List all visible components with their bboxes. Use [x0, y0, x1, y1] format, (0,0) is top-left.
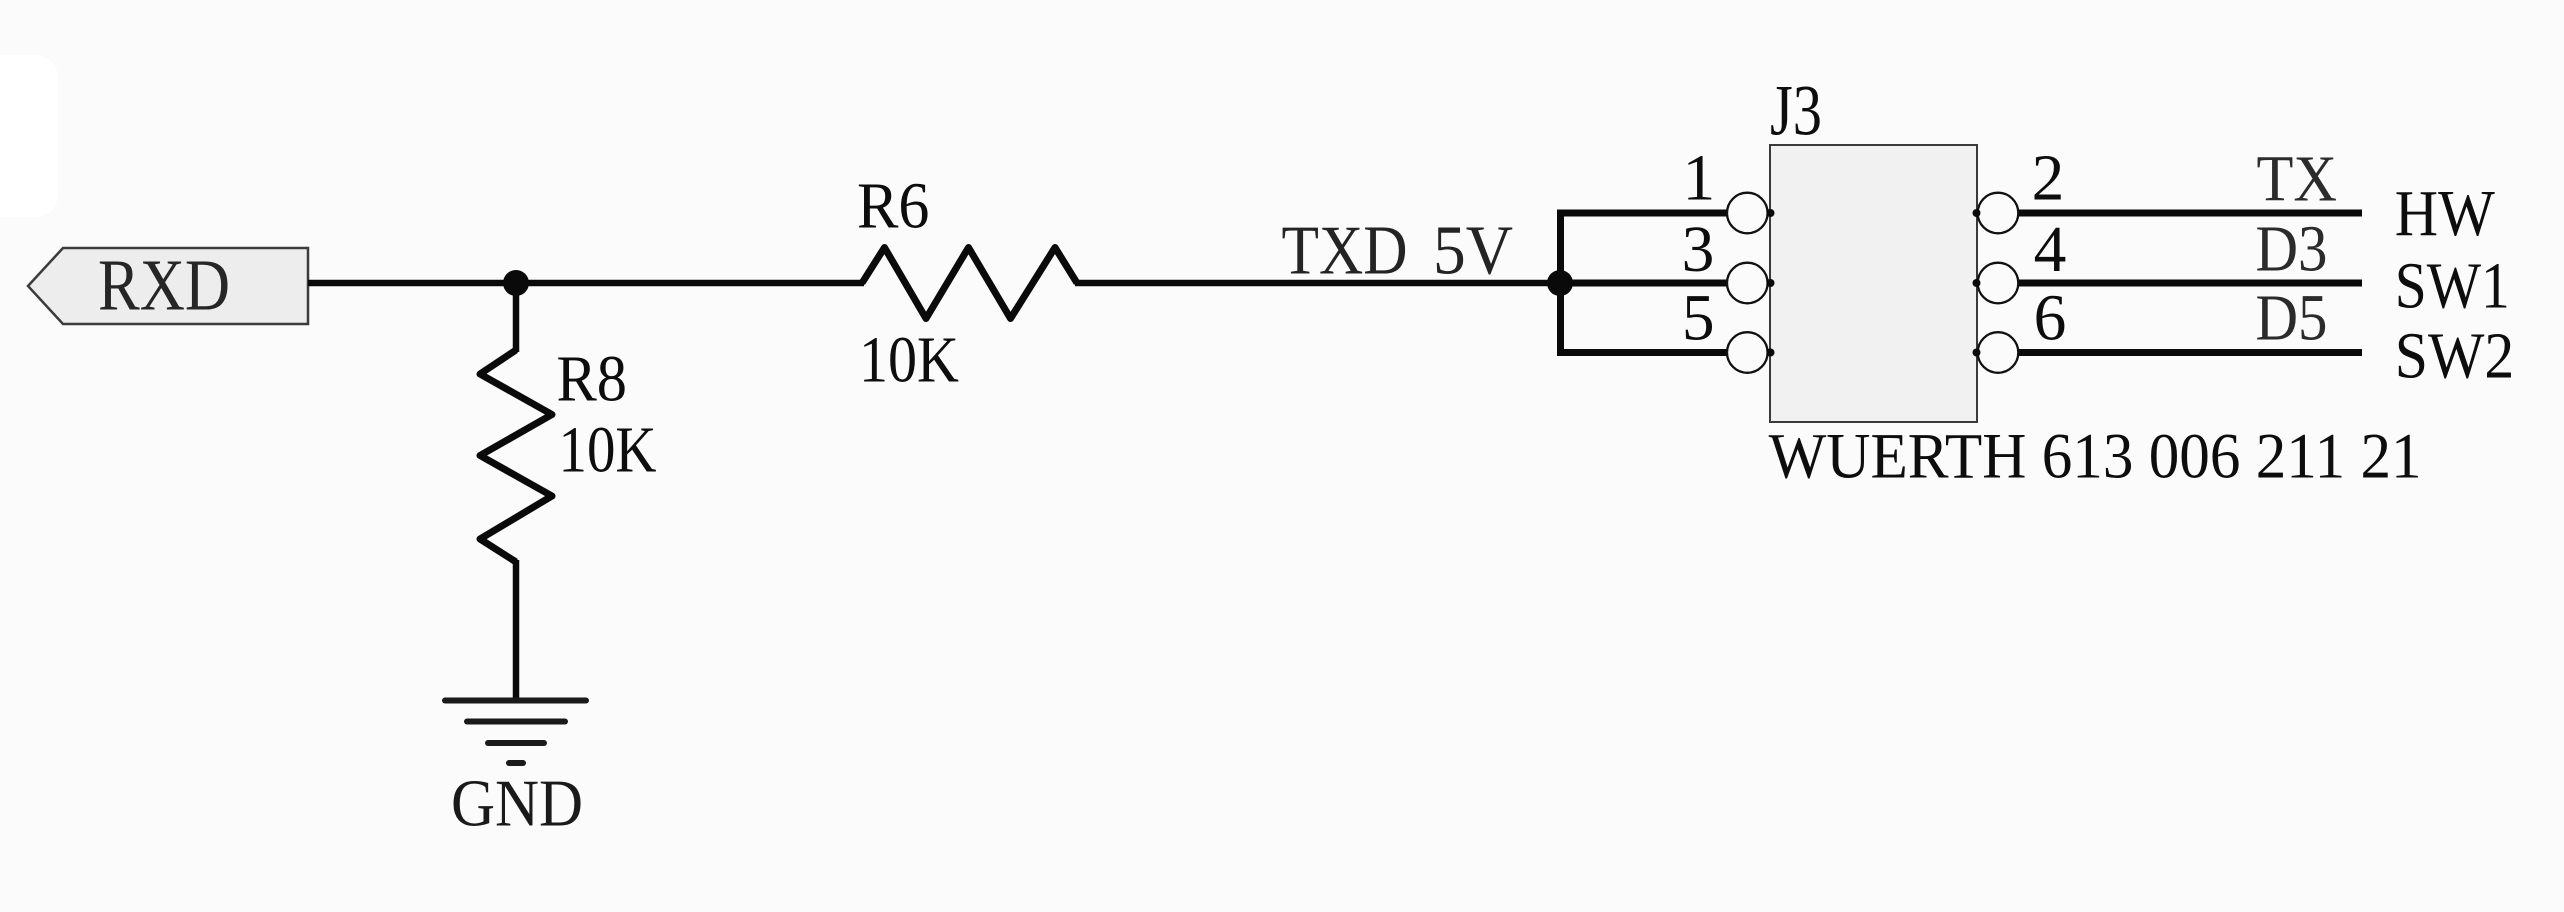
- svg-text:TXD: TXD: [1282, 213, 1408, 290]
- svg-text:TX: TX: [2257, 143, 2338, 215]
- svg-text:GND: GND: [451, 768, 583, 841]
- svg-text:5V: 5V: [1433, 213, 1513, 290]
- svg-text:2: 2: [2032, 143, 2065, 215]
- svg-text:3: 3: [1682, 214, 1715, 286]
- svg-text:4: 4: [2034, 214, 2067, 286]
- svg-text:J3: J3: [1770, 70, 1822, 151]
- svg-text:5: 5: [1682, 283, 1715, 355]
- svg-text:D5: D5: [2256, 283, 2328, 355]
- svg-text:R6: R6: [857, 171, 930, 243]
- svg-text:6: 6: [2034, 283, 2067, 355]
- svg-text:SW1: SW1: [2395, 250, 2510, 322]
- svg-text:RXD: RXD: [98, 245, 230, 326]
- svg-text:10K: 10K: [859, 325, 959, 397]
- svg-text:1: 1: [1683, 143, 1716, 215]
- svg-text:WUERTH 613 006 211 21: WUERTH 613 006 211 21: [1769, 421, 2422, 492]
- svg-text:D3: D3: [2256, 214, 2328, 286]
- svg-text:10K: 10K: [559, 415, 657, 487]
- svg-text:HW: HW: [2395, 178, 2495, 250]
- svg-text:SW2: SW2: [2395, 321, 2515, 393]
- svg-text:R8: R8: [557, 344, 628, 416]
